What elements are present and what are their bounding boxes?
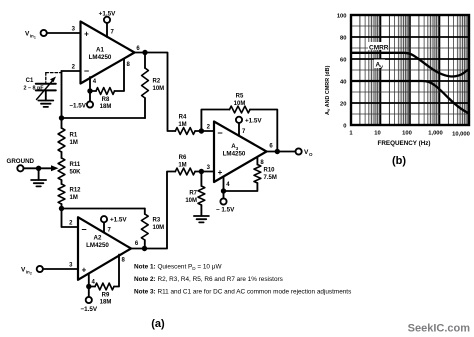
svg-text:Note 2: R2, R3, R4, R5, R6 and: Note 2: R2, R3, R4, R5, R6 and R7 are 1%… [134,276,283,283]
node A3 pin4 [221,188,226,193]
svg-text:2 – 8 pF: 2 – 8 pF [23,86,44,92]
svg-text:7.5M: 7.5M [264,175,277,181]
ground R7 [194,216,209,222]
ground C1 [38,101,53,107]
svg-text:Note 3: R11 and C1 are for DC: Note 3: R11 and C1 are for DC and AC com… [134,288,351,295]
svg-text:R6: R6 [179,155,187,161]
wire pin7 A2 [103,222,105,232]
svg-text:3: 3 [69,263,73,269]
label Av [374,60,385,70]
svg-text:3: 3 [207,165,211,171]
svg-text:R1: R1 [70,133,78,139]
svg-text:7: 7 [111,30,115,36]
svg-text:R8: R8 [102,97,110,103]
svg-text:+1.5V: +1.5V [99,11,116,18]
wire pin4 A3 [223,177,225,199]
terminal Vin2 [21,266,43,275]
terminal +1.5V A3 pin7 [236,117,263,125]
svg-text:(a): (a) [151,318,165,330]
svg-text:1,000: 1,000 [428,131,443,137]
svg-text:V: V [380,65,383,70]
wire A1 pin2 to left rail [62,70,81,72]
x axis tick labels [349,131,469,138]
svg-text:10,000: 10,000 [452,132,470,138]
svg-text:− 1.5V: − 1.5V [216,207,235,214]
svg-text:CMRR: CMRR [369,45,389,52]
svg-text:(b): (b) [392,155,406,167]
svg-text:2: 2 [69,221,73,227]
svg-text:LM4250: LM4250 [223,151,246,158]
resistor R8 [90,88,115,110]
svg-text:LM4250: LM4250 [86,242,109,249]
wire rail bottom to R3 top [62,208,145,210]
svg-text:SeekIC.com: SeekIC.com [408,323,471,335]
ground symbol at GROUND [31,168,46,186]
terminal +1.5V A2 pin7 [101,216,128,224]
svg-text:R2: R2 [153,79,161,85]
svg-text:1M: 1M [70,195,78,201]
wire pin7 A1 [106,23,108,37]
resistor R6 [175,155,214,175]
y axis tick labels [337,13,347,129]
svg-text:−1.5V: −1.5V [80,306,97,313]
label CMRR [368,42,389,52]
wire A1 output [135,53,176,132]
node A1 pin4 [87,88,92,93]
svg-text:80: 80 [340,35,346,41]
svg-text:1M: 1M [70,140,78,146]
svg-text:−: − [84,66,89,76]
graph (b) grid [351,15,469,125]
svg-text:10M: 10M [234,101,246,107]
svg-text:6: 6 [269,144,273,150]
resistor R12 [58,184,81,209]
node A3 pin2 [199,128,204,133]
wire A3 output to Vo [267,151,296,153]
svg-text:1: 1 [34,35,36,39]
resistor R7 [185,172,204,216]
wire R9 to A2 pin8 [114,255,119,287]
terminal -1.5V A2 [80,297,97,313]
svg-text:−1.5V: −1.5V [69,103,86,110]
svg-text:R10: R10 [264,168,276,174]
op-amp A3 [214,122,267,183]
node A1 output [142,50,147,55]
wire A2 output [131,172,175,249]
svg-text:60: 60 [340,57,346,63]
node GROUND [36,166,41,171]
svg-text:8: 8 [260,160,264,166]
resistor R1 [58,128,78,158]
svg-text:R12: R12 [70,188,82,194]
wire Vin2 to A2 pin3 [43,268,78,270]
svg-text:Note 1: Quiescent PD = 10 μW: Note 1: Quiescent PD = 10 μW [134,264,222,272]
svg-text:LM4250: LM4250 [89,54,112,61]
wire Vin1 to A1 pin3 [47,32,81,34]
wire pin4 A2 [88,274,90,297]
svg-text:3: 3 [72,27,76,33]
svg-text:7: 7 [242,129,246,135]
resistor R2 [142,53,165,119]
op-amp A1 [81,22,135,84]
resistor R5 [230,94,251,113]
svg-text:−: − [217,128,222,138]
wire R5 feedback [201,110,229,132]
terminal Vo [296,148,314,157]
svg-text:10: 10 [374,131,380,137]
resistor R10 [224,157,277,191]
svg-text:100: 100 [337,13,347,19]
svg-text:0: 0 [343,123,346,129]
wire rail bottom to A2 pin2 [62,209,79,228]
wire pin4 A1 [89,77,91,101]
terminal -1.5V A1 [69,101,93,109]
wire R2 bottom to rail [62,117,146,119]
node rail R2 [59,115,64,120]
svg-text:GROUND: GROUND [7,158,35,165]
svg-text:+: + [218,168,223,177]
terminal +1.5V A1 pin7 [99,11,116,23]
wire GROUND to wiper [24,167,39,169]
svg-text:2: 2 [30,271,32,275]
svg-text:A1: A1 [96,47,104,54]
svg-text:R5: R5 [236,94,244,100]
svg-text:+: + [84,30,89,39]
svg-text:R4: R4 [179,115,187,121]
svg-text:6: 6 [135,241,139,247]
node A3 pin3 [199,169,204,174]
wire pin7 A3 [238,123,240,136]
svg-text:R3: R3 [153,218,161,224]
terminal GROUND [7,158,35,171]
resistor R4 [175,115,214,135]
svg-text:A2: A2 [94,235,102,242]
wire left rail [61,71,63,128]
resistor R9 [89,283,114,306]
node A2 output / R3 bottom [142,246,147,251]
svg-text:10M: 10M [185,198,197,204]
svg-text:4: 4 [226,182,230,188]
svg-text:20: 20 [340,101,346,107]
curve CMRR [351,53,469,77]
svg-text:R11: R11 [70,162,81,168]
svg-text:7: 7 [108,228,112,234]
svg-text:4: 4 [93,79,97,85]
svg-text:8: 8 [122,258,126,264]
resistor R11 (pot) [58,158,81,184]
node A3 output [275,149,280,154]
svg-text:+1.5V: +1.5V [110,217,127,224]
svg-text:O: O [309,152,313,157]
graph frame [351,15,469,125]
svg-text:4: 4 [92,280,96,286]
node A2 pin4 [86,284,91,289]
curve Av [351,81,469,114]
svg-text:18M: 18M [100,104,112,110]
svg-text:10M: 10M [153,86,165,92]
svg-text:18M: 18M [100,300,112,306]
svg-text:1M: 1M [178,122,186,128]
op-amp A2 [78,217,131,280]
svg-text:2: 2 [72,65,76,71]
svg-text:+1.5V: +1.5V [245,117,262,124]
resistor R3 [141,209,164,249]
svg-text:R9: R9 [102,292,110,298]
svg-text:6: 6 [136,46,140,52]
svg-text:−: − [81,225,86,235]
terminal -1.5V A3 [216,198,235,213]
svg-text:R7: R7 [189,191,197,197]
svg-text:2: 2 [207,125,211,131]
svg-text:AV AND CMRR (dB): AV AND CMRR (dB) [325,65,331,115]
svg-text:100: 100 [402,131,412,137]
node rail bottom [59,206,64,211]
svg-text:50K: 50K [70,170,82,176]
svg-text:+: + [82,266,87,275]
wire R8 to A1 pin8 [115,59,125,91]
wiper arrow R11 [39,165,59,171]
svg-text:C1: C1 [26,78,34,84]
capacitor C1 [23,73,61,101]
svg-text:1M: 1M [178,163,186,169]
svg-text:1: 1 [349,131,353,137]
svg-text:10M: 10M [153,225,165,231]
svg-text:8: 8 [127,62,131,68]
terminal Vin1 [25,30,47,39]
svg-text:FREQUENCY (Hz): FREQUENCY (Hz) [377,140,430,147]
svg-text:40: 40 [340,79,346,85]
